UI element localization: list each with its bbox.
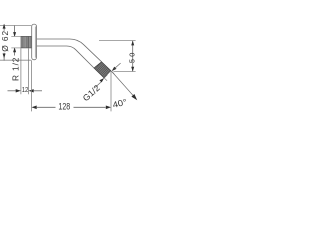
dimension 40deg ray + arrow	[111, 71, 137, 100]
svg-text:40°: 40°	[111, 97, 127, 110]
dimension 12	[8, 48, 43, 94]
extension lines at outlet face	[104, 71, 114, 81]
svg-text:50: 50	[127, 53, 136, 64]
flange (escutcheon side view)	[32, 24, 37, 60]
dimension 128	[32, 60, 112, 111]
svg-text:128: 128	[58, 101, 70, 111]
svg-text:Ø 62: Ø 62	[0, 30, 10, 51]
pipe arm outline bottom edge	[37, 46, 94, 68]
outlet thread G1/2 (hatched tip)	[94, 62, 111, 78]
pipe arm outline top edge	[37, 39, 102, 62]
svg-text:12: 12	[22, 87, 29, 94]
svg-text:R 1/2: R 1/2	[11, 57, 21, 81]
wire: extension line bottom of flange	[0, 59, 31, 61]
dimension G1/2 arrows + leader	[95, 63, 120, 87]
dimension 50	[99, 41, 136, 72]
svg-text:G1/2: G1/2	[81, 83, 102, 104]
dimension R1/2 arrows	[11, 26, 21, 56]
dimension D62 line + arrows	[3, 24, 6, 61]
wire: extension line top of flange	[0, 25, 31, 27]
nipple thread (wall side)	[21, 36, 32, 48]
